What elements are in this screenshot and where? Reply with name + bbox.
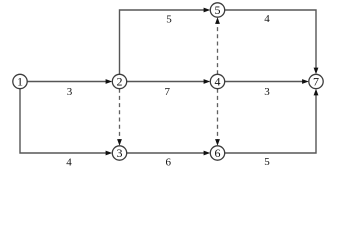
node 6 (210, 146, 224, 160)
svg-text:4: 4 (66, 156, 72, 168)
dashed wire edge 2->3 (117, 89, 122, 146)
node 2 (112, 74, 126, 88)
dashed wire edge 4->5 (upward) (215, 17, 220, 74)
wire edge 1->2 (27, 79, 112, 84)
svg-text:1: 1 (17, 74, 23, 88)
svg-text:3: 3 (67, 86, 73, 98)
node 7 (309, 74, 323, 88)
wire edge 2->4 (127, 79, 211, 84)
wire edge 5->7 (right then down) (225, 10, 319, 74)
svg-text:7: 7 (313, 74, 319, 88)
node 1 (13, 74, 27, 88)
node 3 (112, 146, 126, 160)
svg-text:5: 5 (264, 156, 270, 168)
node 4 (210, 74, 224, 88)
node 5 (210, 3, 224, 17)
svg-text:5: 5 (166, 13, 172, 25)
wire edge 2->5 (up then right) (120, 8, 211, 75)
dashed wire edge 4->6 (215, 89, 220, 146)
wire edge 6->7 (right then up) (225, 89, 319, 153)
svg-text:2: 2 (117, 74, 123, 88)
svg-text:4: 4 (264, 13, 270, 25)
svg-text:6: 6 (166, 157, 172, 169)
svg-text:6: 6 (215, 146, 221, 160)
wire edge 3->6 (127, 151, 211, 156)
svg-text:7: 7 (165, 86, 171, 98)
svg-text:3: 3 (117, 146, 123, 160)
svg-text:3: 3 (264, 86, 270, 98)
wire edge 4->7 (225, 79, 309, 84)
svg-text:4: 4 (215, 74, 221, 88)
wire edge 1->3 (down then right) (20, 89, 112, 156)
svg-text:5: 5 (215, 3, 221, 17)
